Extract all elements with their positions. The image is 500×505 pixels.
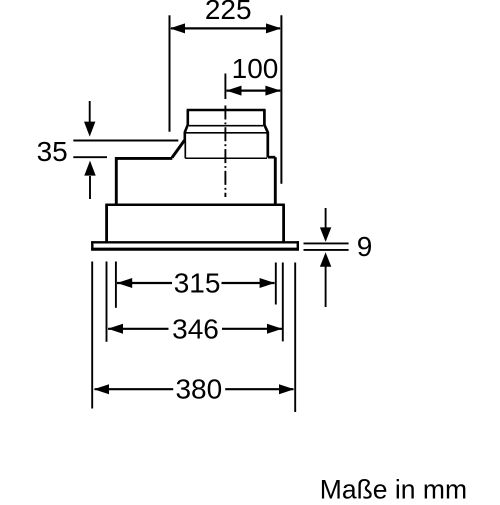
centerline dash-dot bbox=[224, 106, 226, 198]
sloped cover diagonal bbox=[172, 140, 185, 158]
dimension 225 left arrowhead bbox=[170, 23, 185, 33]
svg-text:346: 346 bbox=[172, 314, 219, 345]
hood body: mid step line bbox=[105, 203, 285, 206]
svg-text:380: 380 bbox=[175, 374, 222, 405]
dimension 315 right extension line bbox=[275, 263, 277, 305]
dimension 315 line right segment bbox=[222, 282, 275, 284]
hood body: lower box sides bbox=[107, 205, 284, 242]
dimension 225 left extension line bbox=[169, 15, 171, 131]
duct collar top bbox=[187, 109, 266, 112]
collar crimp line 1 bbox=[189, 125, 263, 127]
duct hidden left edge bbox=[184, 141, 186, 159]
dimension 346 right arrowhead bbox=[267, 324, 282, 334]
dimension 380 line right segment bbox=[225, 388, 293, 390]
svg-text:315: 315 bbox=[174, 268, 221, 299]
dimension 315 left arrowhead bbox=[117, 278, 132, 288]
dimension 380 right extension line bbox=[294, 263, 296, 413]
dimension 35 down arrow bbox=[89, 101, 91, 123]
hood body: upper box outline bbox=[116, 157, 275, 204]
dimension 100 line bbox=[227, 89, 281, 91]
dimension 380 line left segment bbox=[95, 388, 174, 390]
dimension 315 line left segment bbox=[117, 282, 172, 284]
dimension 225 line bbox=[171, 27, 280, 29]
svg-text:225: 225 bbox=[205, 0, 252, 25]
dimension 35 up arrow bbox=[89, 176, 91, 199]
centerline solid tick (100 dim extension) bbox=[224, 74, 226, 100]
dimension 380 right arrowhead bbox=[279, 384, 294, 394]
svg-text:9: 9 bbox=[357, 231, 373, 262]
dimension 35 lower reference line bbox=[73, 156, 107, 158]
dimension 9 lower reference line bbox=[304, 249, 349, 251]
dimension 346 line right segment bbox=[222, 328, 282, 330]
dimension 346 line left segment bbox=[108, 328, 169, 330]
dimension 100 right arrowhead bbox=[265, 86, 280, 96]
dimension 225 right arrowhead bbox=[266, 23, 281, 33]
duct collar right side bbox=[264, 110, 267, 157]
dimension 346 left extension line bbox=[106, 262, 108, 342]
dimension 9 down arrow bbox=[325, 208, 327, 229]
svg-text:35: 35 bbox=[37, 136, 68, 167]
dimension 380 left arrowhead bbox=[94, 384, 109, 394]
svg-text:100: 100 bbox=[232, 53, 279, 84]
dimension 315 right arrowhead bbox=[260, 278, 275, 288]
dimension 380 left extension line bbox=[91, 262, 93, 409]
dimension 35 upper reference line bbox=[73, 140, 178, 142]
dimension 9 upper reference line bbox=[304, 242, 349, 244]
body top line behind collar bbox=[185, 157, 267, 159]
hood flange (bottom plate) bbox=[91, 241, 299, 250]
dimension 9 up arrow bbox=[325, 266, 327, 308]
dimension 225/100 right extension line bbox=[280, 15, 282, 183]
duct collar left side bbox=[185, 110, 188, 141]
dimension 100 left arrowhead bbox=[226, 86, 241, 96]
dimension 346 left arrowhead bbox=[108, 324, 123, 334]
svg-text:Maße in mm: Maße in mm bbox=[320, 474, 467, 500]
dimension 346 right extension line bbox=[282, 263, 284, 342]
collar crimp line 2 bbox=[186, 132, 267, 134]
dimension 315 left extension line bbox=[115, 262, 117, 308]
